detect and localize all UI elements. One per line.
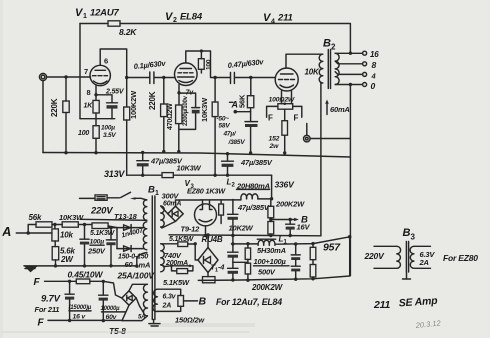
- node AC left: [194, 242, 197, 245]
- wire grid to V2: [164, 77, 175, 79]
- resistor 220K (V2 grid leak): [148, 78, 167, 152]
- wire V2 plate loop: [186, 51, 215, 102]
- node V2 grid: [162, 76, 165, 79]
- wire EZ80 cathode to HT line: [205, 226, 207, 236]
- svg-text:470Ω2W: 470Ω2W: [167, 103, 174, 130]
- wire HT line B (L1 output 957V): [232, 237, 350, 244]
- resistor 200K2W (divider top): [268, 199, 274, 222]
- terminal 0: [363, 81, 376, 91]
- svg-text:220V: 220V: [90, 206, 113, 217]
- svg-text:0.45/10W: 0.45/10W: [68, 269, 104, 279]
- choke L2: [237, 189, 272, 199]
- svg-text:1: 1: [155, 190, 159, 197]
- paper shading: [0, 331, 250, 333]
- wire HT line A: [169, 235, 321, 236]
- svg-text:A: A: [231, 100, 238, 110]
- wire tap 8: [335, 61, 362, 64]
- svg-text:47µ/385V: 47µ/385V: [240, 158, 273, 167]
- svg-text:B: B: [403, 227, 411, 239]
- node 957 junction: [348, 235, 352, 239]
- node input/220K junction: [64, 75, 67, 78]
- node 220K ground: [64, 151, 67, 154]
- resistor 100 (V2 screen): [198, 49, 212, 73]
- triode V1: [90, 65, 110, 85]
- resistor 470R2W (V2 cathode): [167, 103, 182, 130]
- wire F top line: [45, 281, 122, 298]
- transformer B1 core: [152, 196, 155, 320]
- svg-text:211: 211: [277, 13, 293, 24]
- choke L1 5H30mA: [257, 235, 288, 256]
- node 0 tap: [349, 83, 352, 86]
- capacitor 15000u/16V: [65, 280, 92, 323]
- wire tap 4: [335, 72, 362, 75]
- terminal 8: [363, 60, 377, 70]
- svg-text:60: 60: [125, 260, 134, 269]
- potentiometer 100R2W (filament hum): [269, 91, 295, 110]
- resistor 1K3W (EZ80): [219, 200, 224, 224]
- svg-text:mA: mA: [139, 260, 151, 269]
- capacitor 100u/500V right upper: [291, 242, 300, 260]
- svg-text:B: B: [323, 38, 331, 50]
- svg-text:2A: 2A: [419, 258, 429, 267]
- transformer B3 core: [406, 242, 408, 273]
- filament terminal F right: [293, 106, 302, 122]
- transformer B3 primary: [364, 246, 401, 268]
- wire node B: [271, 219, 296, 221]
- svg-text:957: 957: [323, 242, 341, 254]
- bridge rectifier T9-12: [168, 206, 200, 233]
- node V1 cathode: [94, 93, 97, 96]
- ground B3: [403, 272, 411, 279]
- node 5.6K ground: [54, 264, 57, 267]
- resistor 100K2W (V1 plate load): [124, 90, 138, 175]
- transformer B2 primary: [319, 54, 323, 83]
- svg-text:220K: 220K: [148, 91, 157, 110]
- wire primary bottom lead: [80, 219, 147, 220]
- node bias cap ground: [249, 151, 252, 154]
- wire top feedback rail: [80, 24, 350, 54]
- transformer T5-8 winding: [143, 284, 147, 316]
- svg-text:1K: 1K: [84, 103, 94, 110]
- svg-text:200K2W: 200K2W: [275, 200, 305, 209]
- svg-text:EL84: EL84: [180, 12, 203, 23]
- wire tap 0: [335, 84, 362, 86]
- svg-text:200K2W: 200K2W: [251, 283, 284, 292]
- capacitor 100u/250V first: [80, 225, 89, 268]
- wire input to V1 grid: [47, 76, 91, 78]
- bridge rectifier T1-4: [198, 248, 225, 274]
- filament terminal F left: [267, 106, 278, 122]
- node 100 ground: [94, 151, 97, 154]
- resistor 56K (V4 grid): [238, 78, 254, 112]
- svg-text:12AU7: 12AU7: [90, 8, 119, 19]
- svg-text:100µ: 100µ: [90, 239, 105, 246]
- node bridge plus: [206, 233, 209, 236]
- capacitor 100u/500V right lower: [291, 260, 300, 281]
- wire V4 plate to B2: [286, 54, 321, 68]
- resistor 100 (V1 feedback leg): [78, 119, 99, 153]
- svg-text:F: F: [294, 114, 299, 123]
- wire V1 cathode: [96, 85, 112, 102]
- capacitor 100u/250V second: [106, 226, 115, 268]
- wire bridge top to winding: [129, 284, 147, 291]
- wire 336V corner: [271, 175, 273, 199]
- transformer B1 740V winding: [161, 244, 188, 272]
- resistor 56K bias: [29, 213, 63, 227]
- svg-text:F: F: [268, 114, 273, 123]
- svg-text:47µ/385V: 47µ/385V: [237, 203, 270, 212]
- label V3 EZ80 1K3W: [185, 179, 227, 196]
- svg-text:100: 100: [78, 130, 89, 137]
- svg-text:EZ80 1K3W: EZ80 1K3W: [187, 187, 226, 196]
- node V2 plate feed / rail: [213, 174, 216, 177]
- node A lead: [26, 231, 30, 235]
- transformer B1 primary: [143, 200, 146, 220]
- svg-text:10K: 10K: [305, 68, 320, 77]
- rectifier V3 EZ80: [195, 204, 217, 226]
- transformer B1 6.3V winding: [153, 289, 180, 311]
- wire bias ground line: [24, 265, 137, 267]
- svg-text:9.7V: 9.7V: [41, 294, 61, 305]
- svg-text:100+100µ: 100+100µ: [254, 257, 287, 266]
- wire bridge bottom to winding return: [122, 305, 129, 320]
- resistor 10K2W (divider bottom): [229, 222, 274, 238]
- svg-text:56k: 56k: [29, 213, 42, 222]
- wire 313V rail: [127, 174, 272, 176]
- svg-text:B: B: [199, 296, 207, 308]
- svg-text:16V: 16V: [297, 223, 311, 232]
- capacitor 0.47u/630V coupling: [215, 57, 265, 83]
- resistor 10K (divider): [52, 225, 74, 247]
- wire ground bus: [43, 153, 350, 158]
- terminal 4: [363, 72, 377, 81]
- node choke out: [270, 197, 273, 200]
- capacitor 100u/500V lower: [228, 258, 238, 282]
- terminal 16: [363, 50, 380, 59]
- node A (bias feed): [230, 100, 251, 114]
- capacitor 47u/385V (bias decoupling): [245, 112, 258, 153]
- label 100+100u / 500V: [254, 257, 290, 277]
- transformer B3 secondary: [410, 246, 435, 268]
- svg-text:250V: 250V: [87, 247, 106, 256]
- svg-text:8.2K: 8.2K: [119, 27, 137, 37]
- svg-text:6.3v: 6.3v: [163, 294, 177, 301]
- label V1 12AU7: [75, 7, 119, 20]
- resistor 220K (input): [50, 77, 69, 153]
- svg-text:/385V: /385V: [228, 139, 246, 146]
- wire B2 primary bottom to HT: [320, 83, 322, 236]
- resistor 10K3W (V2 plate feed): [200, 97, 218, 175]
- wire V2 cathode network: [179, 85, 196, 152]
- node V4 grid: [249, 76, 252, 79]
- svg-text:T13-18: T13-18: [114, 212, 138, 221]
- resistor 5.1K3W bias filter: [90, 223, 117, 237]
- bridge rectifier 25A/100V: [122, 291, 136, 305]
- svg-text:10K2W: 10K2W: [229, 224, 254, 233]
- svg-text:0: 0: [371, 81, 376, 91]
- transformer B2 core: [328, 50, 330, 89]
- node EZ80 cathode: [204, 234, 207, 237]
- svg-text:336V: 336V: [275, 180, 296, 190]
- ground T5-8 core: [149, 320, 160, 327]
- label V4 211: [263, 12, 293, 26]
- resistor 5.6K 2W: [52, 247, 75, 266]
- wire V1 plate loop: [100, 49, 127, 107]
- label 150-0-150 60mA: [118, 254, 150, 270]
- svg-text:10K3W: 10K3W: [177, 164, 202, 173]
- svg-text:4: 4: [271, 19, 275, 26]
- wire PSU bottom return: [198, 237, 349, 281]
- resistor series bottom line: [203, 277, 216, 283]
- node V1 plate / coupling: [125, 76, 128, 79]
- resistor 5.1K5W upper leg: [161, 236, 196, 247]
- svg-text:100µ: 100µ: [101, 125, 115, 132]
- node bias CT ground: [135, 264, 138, 267]
- node 16 tap / feedback: [349, 52, 352, 55]
- wire diode join: [116, 228, 118, 249]
- svg-text:RU4B: RU4B: [202, 235, 223, 244]
- resistor bleeder right upper: [310, 242, 316, 265]
- svg-text:10K3W: 10K3W: [59, 213, 84, 222]
- wire bias CT: [137, 253, 147, 267]
- svg-text:-4: -4: [218, 263, 225, 272]
- svg-text:220V: 220V: [364, 251, 386, 261]
- input connector: [39, 73, 46, 80]
- wire 0 tap down right riser: [349, 85, 351, 276]
- label 100u 250V: [87, 239, 106, 256]
- svg-text:16: 16: [370, 50, 379, 59]
- wire bridge AC left: [195, 244, 198, 260]
- diode 1N4007 upper: [108, 225, 143, 231]
- transformer B1 bias winding: [143, 222, 147, 250]
- wire bridge T9-12 output: [176, 200, 201, 206]
- resistor 0.45/10W: [68, 269, 104, 283]
- wire A lead: [16, 225, 52, 234]
- node filter cap 1: [83, 223, 86, 226]
- svg-text:740V: 740V: [164, 251, 182, 260]
- node V2 plate: [213, 76, 216, 79]
- svg-text:For EZ80: For EZ80: [443, 253, 478, 263]
- node hum tap ground: [283, 151, 286, 154]
- wire cap equalize link: [233, 261, 248, 263]
- svg-text:5A: 5A: [138, 315, 145, 321]
- svg-text:16 v: 16 v: [73, 314, 87, 321]
- svg-text:2W: 2W: [60, 255, 74, 264]
- resistor 10K3W bias: [59, 213, 92, 227]
- wire feedback drop to V1 cathode network: [79, 24, 81, 119]
- capacitor 47u/385V (313V filter): [137, 151, 183, 177]
- svg-text:500V: 500V: [258, 268, 276, 277]
- label V2 EL84: [165, 11, 203, 24]
- capacitor 16V (heater bias): [286, 218, 311, 237]
- label B2: [323, 38, 336, 52]
- capacitor 10000u/50V: [99, 280, 125, 323]
- label -50~-58V 47u/385V: [217, 116, 246, 147]
- svg-text:211: 211: [373, 299, 390, 311]
- resistor 10K3W (rail dropper): [162, 164, 202, 178]
- svg-text:300V: 300V: [162, 192, 180, 201]
- wire cathode network bottom loop: [80, 113, 115, 119]
- svg-text:5.1K3W: 5.1K3W: [90, 230, 116, 237]
- wire bridge minus: [207, 273, 209, 277]
- svg-text:-50~: -50~: [217, 116, 230, 123]
- capacitor 47u/385V (336V filter): [222, 152, 273, 177]
- capacitor 47u/385V (336V reservoir): [228, 200, 270, 238]
- resistor bleeder right lower: [310, 265, 316, 281]
- triode V4 211: [275, 68, 298, 91]
- svg-text:100K2W: 100K2W: [129, 90, 138, 119]
- label L2 20H80mA: [227, 178, 270, 191]
- node 220K V2 ground: [162, 150, 165, 153]
- svg-text:56K: 56K: [238, 94, 247, 108]
- ground symbol bias: [24, 266, 38, 273]
- switch mains: [121, 192, 147, 200]
- svg-text:For 211: For 211: [35, 305, 60, 314]
- wire grid to V4: [251, 77, 276, 79]
- pentode V2: [175, 63, 198, 86]
- svg-text:8: 8: [87, 88, 91, 97]
- svg-text:2w: 2w: [269, 143, 280, 150]
- svg-text:58V: 58V: [219, 123, 231, 130]
- capacitor 100u 3.5V (V1 cathode bypass): [101, 103, 118, 139]
- wire tap 16: [335, 52, 362, 54]
- svg-text:1: 1: [83, 13, 87, 20]
- svg-text:10K3W: 10K3W: [200, 97, 209, 122]
- capacitor 100u/500V upper: [228, 236, 238, 258]
- svg-text:60mA: 60mA: [330, 105, 350, 114]
- svg-text:47µ/: 47µ/: [223, 131, 237, 138]
- wire bridge plus to HT: [207, 235, 209, 248]
- svg-text:2A: 2A: [162, 303, 172, 310]
- svg-text:For 12Au7, EL84: For 12Au7, EL84: [216, 297, 282, 307]
- wire EZ80 plates bar: [200, 200, 241, 206]
- wire F bottom line: [48, 316, 147, 321]
- arrow node B: [294, 215, 308, 226]
- node V2 cathode ground: [177, 150, 180, 153]
- wire connector shield to ground bus: [42, 81, 44, 153]
- label B1: [148, 185, 159, 198]
- fuse mains: [80, 195, 120, 200]
- svg-text:10k: 10k: [60, 231, 73, 240]
- svg-text:(15000)µ: (15000)µ: [69, 305, 92, 311]
- svg-text:7: 7: [84, 67, 88, 76]
- svg-text:25A/100V: 25A/100V: [117, 270, 156, 280]
- resistor 200K2W bleeder upper: [245, 242, 250, 263]
- svg-text:60mA: 60mA: [163, 201, 181, 208]
- svg-text:3.5V: 3.5V: [103, 132, 116, 139]
- diode 1N4007 lower: [117, 246, 144, 252]
- svg-text:T9-12: T9-12: [181, 225, 201, 234]
- resistor heater CT: [178, 289, 198, 311]
- transformer B1 300V winding: [161, 192, 182, 228]
- node V2 cathode: [177, 91, 180, 94]
- svg-text:6: 6: [104, 57, 108, 66]
- resistor 8.2K: [108, 21, 137, 37]
- label B3: [403, 227, 416, 242]
- resistor 1K: [84, 100, 100, 113]
- wire bridge right stub: [136, 298, 143, 313]
- svg-text:100: 100: [206, 59, 213, 70]
- svg-text:152: 152: [269, 136, 280, 143]
- svg-text:8: 8: [372, 60, 377, 70]
- capacitor 0.1u/630V coupling: [127, 59, 167, 84]
- svg-text:B: B: [148, 185, 155, 196]
- transformer B2 secondary: [335, 53, 339, 84]
- svg-text:2200µ/100v: 2200µ/100v: [183, 95, 189, 126]
- svg-text:5.1K5W: 5.1K5W: [163, 278, 190, 287]
- svg-text:5H30mA: 5H30mA: [257, 246, 286, 255]
- wire 300V winding to bridge: [161, 206, 176, 228]
- resistor 5.1K5W lower leg: [161, 265, 193, 288]
- resistor 200K2W bleeder lower: [245, 263, 250, 282]
- jack chassis point: [304, 124, 351, 142]
- label 60mA arrow: [325, 100, 349, 115]
- label 211 SE Amp title: [373, 295, 439, 311]
- svg-text:313V: 313V: [104, 169, 125, 179]
- resistor 152 2W (hum pot tap): [269, 109, 288, 153]
- node divider: [53, 223, 56, 226]
- svg-text:220K: 220K: [50, 98, 59, 117]
- capacitor 2200u/100V (V2 cathode bypass): [183, 95, 200, 126]
- svg-text:5.1K5W: 5.1K5W: [169, 236, 195, 243]
